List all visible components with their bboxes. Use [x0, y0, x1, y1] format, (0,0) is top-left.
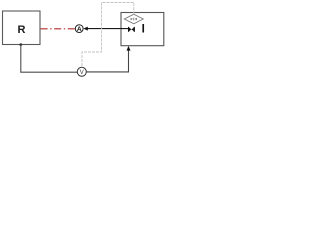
svg-text:A: A: [77, 26, 82, 33]
red dash-dot wire R to ammeter: [41, 28, 76, 30]
wire from R bottom to voltmeter: [21, 45, 78, 73]
svg-text:I: I: [142, 24, 145, 36]
resistor block R: [3, 11, 41, 45]
input port bowtie symbol: [129, 27, 135, 32]
wire voltmeter to I-source bottom with up arrowhead: [86, 50, 128, 72]
diamond inner arrow mark: [131, 18, 137, 21]
controlled source diamond: [124, 14, 143, 24]
svg-text:R: R: [18, 24, 26, 36]
wire I-source to ammeter with arrowhead: [87, 28, 129, 30]
voltmeter V: [77, 67, 86, 76]
current source block I: [121, 13, 164, 46]
ammeter A: [75, 25, 83, 33]
node junction at R bottom: [19, 43, 22, 46]
gray control wire diamond to voltmeter: [82, 3, 134, 68]
svg-text:V: V: [80, 70, 84, 76]
